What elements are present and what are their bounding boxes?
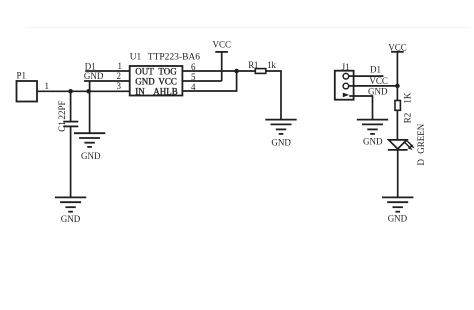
svg-text:VCC: VCC: [369, 76, 388, 86]
ground under C1: [55, 197, 86, 224]
svg-text:GND: GND: [61, 214, 81, 224]
ground bottom right: [382, 197, 413, 223]
svg-text:1K: 1K: [403, 92, 413, 104]
svg-text:1: 1: [45, 81, 50, 91]
J1 pin 2 stub: [349, 85, 354, 87]
J1 pin 2 circle: [343, 83, 349, 89]
svg-text:GREEN: GREEN: [416, 123, 426, 153]
svg-text:GND: GND: [368, 87, 388, 97]
junction GND stub on IN wire: [86, 89, 91, 94]
svg-text:R2: R2: [403, 113, 413, 124]
svg-text:22PF: 22PF: [57, 100, 67, 119]
resistor R1 body: [255, 69, 265, 74]
LED D triangle: [389, 140, 407, 149]
power VCC left symbol: [215, 51, 228, 53]
J1 pin 1 circle: [343, 73, 349, 79]
svg-text:VCC: VCC: [213, 40, 232, 50]
power VCC right symbol: [391, 51, 404, 53]
svg-text:OUT: OUT: [135, 67, 154, 77]
svg-text:P1: P1: [17, 71, 27, 81]
wire U1 pin 6 to R1: [182, 70, 255, 72]
ground under R1: [265, 120, 296, 148]
junction pin4/pin6/R1 node: [234, 69, 239, 74]
svg-text:2: 2: [117, 71, 122, 81]
junction C1 tap: [68, 89, 73, 94]
wire VCC left drop: [221, 52, 223, 81]
connector P1: [17, 81, 38, 102]
LED arrow 1: [405, 142, 411, 148]
wire VCC right drop to R2: [396, 52, 398, 101]
wire R2 to LED: [396, 110, 398, 140]
resistor R2 body: [395, 101, 400, 111]
svg-text:TOG: TOG: [158, 67, 177, 77]
svg-text:IN: IN: [135, 86, 145, 96]
connector J1 body: [335, 71, 354, 100]
LED D cathode bar: [388, 149, 408, 151]
junction VCC/J1 node: [395, 84, 400, 89]
svg-text:3: 3: [117, 81, 122, 91]
svg-text:1: 1: [118, 61, 123, 71]
wire U1 pin 4: [182, 71, 236, 91]
svg-text:1k: 1k: [267, 60, 276, 70]
svg-text:4: 4: [191, 82, 196, 92]
wire LED to ground: [397, 150, 399, 198]
svg-text:U1: U1: [130, 53, 142, 63]
svg-text:C1: C1: [57, 121, 67, 132]
svg-text:GND: GND: [84, 71, 104, 81]
capacitor C1 bottom plate: [63, 125, 78, 127]
svg-text:5: 5: [191, 72, 196, 82]
wire J1 pin 1 net D1: [353, 75, 384, 77]
svg-text:AHLB: AHLB: [153, 86, 178, 96]
ground mid-left: [74, 133, 105, 161]
IC U1 body: [130, 66, 183, 96]
svg-text:GND: GND: [363, 137, 383, 147]
faint scan line: [28, 27, 468, 29]
wire GND stub vertical: [89, 81, 91, 133]
wire net D1 to U1 pin 1: [85, 70, 130, 72]
wire P1 to U1 pin 3 (node IN): [37, 90, 130, 92]
J1 pin 1 stub: [349, 75, 354, 77]
ground under J1: [357, 120, 388, 147]
wire J1 pin 2 net VCC: [353, 85, 397, 87]
svg-text:GND: GND: [81, 151, 101, 161]
LED arrow 2: [407, 140, 413, 146]
wire C1 bottom lead: [70, 126, 72, 197]
svg-text:GND: GND: [388, 214, 408, 224]
wire C1 top lead: [70, 91, 72, 121]
svg-text:GND: GND: [271, 137, 291, 147]
J1 pin 3 arrow: [343, 93, 349, 98]
capacitor C1 top plate: [63, 121, 78, 123]
wire J1 pin 3 to ground: [349, 96, 372, 120]
wire U1 pin 5 to VCC: [182, 80, 221, 82]
svg-text:GND: GND: [135, 77, 155, 87]
svg-text:D1: D1: [370, 65, 381, 75]
wire net GND to U1 pin 2: [84, 80, 130, 82]
wire R1 to ground: [266, 71, 281, 120]
svg-text:D: D: [416, 159, 426, 166]
svg-text:VCC: VCC: [158, 77, 177, 87]
svg-text:6: 6: [191, 62, 196, 72]
